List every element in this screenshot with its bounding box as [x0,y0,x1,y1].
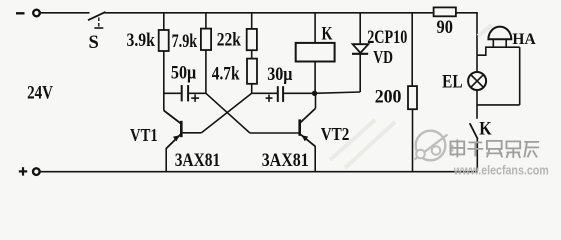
svg-text:30μ: 30μ [267,64,292,84]
wire 22k to 4.7k [251,50,253,58]
svg-text:3AX81: 3AX81 [262,150,309,170]
transistor VT2 [315,93,317,108]
wire junction to diode column [315,92,361,93]
svg-text:3.9k: 3.9k [127,30,156,50]
wire top rail left segment [40,12,89,14]
svg-text:22k: 22k [217,29,242,50]
svg-text:90: 90 [437,16,454,37]
junction node (relay / VT2 collector / diode) [312,91,317,96]
wire 200 column top [411,13,413,86]
wire 7.9k bottom to node B [205,50,207,93]
svg-text:200: 200 [375,86,402,106]
lamp EL [468,72,486,90]
relay coil K box [296,43,335,62]
svg-text:VT2: VT2 [321,124,350,144]
resistor R 3.9k [159,30,169,51]
resistor 90 (box) [434,7,456,16]
transistor VT1 [164,111,181,124]
wire column 22k top [251,13,253,29]
watermark chinese characters (pseudo-glyphs) [451,139,540,158]
svg-text:7.9k: 7.9k [172,30,198,51]
resistor R 7.9k [201,29,211,50]
wire column VT1-collector top [163,13,165,30]
svg-text:VT1: VT1 [130,127,158,145]
svg-text:www.elecfans.com: www.elecfans.com [453,164,549,178]
wire bottom rail [40,171,478,173]
svg-text:VD: VD [373,49,393,68]
wire 50u cap left lead [164,92,181,94]
wire diode column top [359,13,361,45]
watermark faint streaks [330,25,492,168]
svg-text:2CP10: 2CP10 [367,26,407,47]
diode VD triangle [353,44,369,53]
wire 4.7k bottom to node C [251,84,253,94]
transistor VT2 emitter arrow [302,135,309,141]
capacitor 50u plates [181,85,183,101]
wire lamp to switch K [476,90,478,119]
svg-text:3AX81: 3AX81 [175,150,221,171]
svg-text:EL: EL [442,71,462,92]
bell HA dome [488,27,511,40]
wire VT1 collector column [163,51,165,111]
battery plus terminal [33,168,40,175]
switch S blade [88,12,106,20]
svg-text:K: K [322,23,333,44]
svg-text:K: K [479,119,492,139]
watermark logo circle [415,131,454,161]
wire top rail middle segment [105,12,434,14]
wire relay bottom to junction [314,62,316,94]
wire 30u cap left lead [252,92,277,94]
svg-text:4.7k: 4.7k [212,63,240,84]
wire to lamp EL [476,55,478,72]
svg-text:HA: HA [512,31,536,48]
wire cross-couple diagonal node C to VT1 base [201,93,251,133]
resistor R 4.7k [247,59,257,84]
wire cross-couple diagonal node B to VT2 base [206,93,250,133]
svg-text:50μ: 50μ [171,63,196,83]
wire bell branch top link [477,47,486,55]
bell HA shoulder [485,46,520,48]
wire 200 column bottom [412,109,414,172]
wire column 7.9k top [205,13,207,29]
resistor R 200 [408,86,417,109]
wire bell right leg [519,47,521,105]
svg-text:24V: 24V [27,82,53,103]
wire 30u cap right lead to junction [284,92,315,94]
resistor R 22k [247,29,257,50]
capacitor 50u polarity plus [191,97,199,99]
wire relay column top [314,13,316,43]
battery minus terminal [16,12,25,14]
wire top rail right segment [456,12,478,14]
wire diode bottom lead [359,54,361,92]
transistor VT1 emitter arrow [173,135,180,141]
capacitor 30u plates [277,86,279,102]
svg-text:S: S [89,33,99,53]
switch S actuator dashes [98,18,100,22]
wire right edge down to lamp branch [476,13,478,55]
capacitor 30u polarity plus [266,97,273,99]
switch K blade [470,123,478,139]
bell HA neck [492,39,494,47]
wire 50u cap right lead [189,92,206,94]
diode VD cathode bar [352,53,368,55]
wire switch K to bottom rail [476,139,478,172]
wire branch bottom link [477,104,520,106]
